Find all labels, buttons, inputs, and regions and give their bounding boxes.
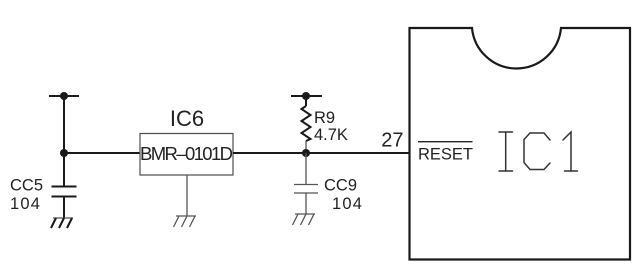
ground (CC5) — [51, 218, 73, 228]
ground (CC9) — [293, 214, 316, 225]
capacitor CC9 — [294, 185, 318, 194]
svg-text:R9: R9 — [314, 109, 335, 127]
svg-text:CC5: CC5 — [10, 177, 43, 195]
svg-text:RESET: RESET — [418, 146, 473, 164]
svg-text:104: 104 — [332, 195, 363, 213]
wire CC9 to ground — [305, 193, 307, 214]
wire R9 junction to CC9 — [305, 153, 307, 185]
svg-text:IC6: IC6 — [170, 106, 204, 131]
wire IC6 to IC1 — [233, 152, 410, 154]
ground (IC6) — [174, 216, 197, 227]
junction dot R9 — [302, 149, 310, 157]
svg-text:27: 27 — [381, 130, 403, 152]
wire left vertical — [63, 96, 65, 187]
svg-text:BMR–0101D: BMR–0101D — [140, 143, 233, 164]
svg-text:4.7K: 4.7K — [314, 126, 348, 144]
wire CC5 to ground — [63, 197, 65, 219]
IC IC6 box — [140, 134, 233, 176]
wire IC6 to ground — [186, 175, 188, 216]
IC IC1 box with notch — [410, 28, 631, 260]
resistor R9 — [302, 96, 311, 141]
label IC1 (stroke CAD font) — [499, 132, 578, 171]
wire junction to IC6 — [64, 152, 140, 154]
svg-text:CC9: CC9 — [324, 177, 357, 195]
junction dot left top — [60, 92, 68, 100]
node VCC stub left — [49, 95, 79, 97]
svg-text:104: 104 — [10, 195, 41, 213]
wire R9 to junction — [305, 141, 307, 153]
junction dot left — [60, 149, 68, 157]
junction dot above R9 — [302, 92, 310, 100]
capacitor CC5 — [52, 187, 77, 197]
node VCC stub above R9 — [291, 95, 322, 97]
pin RESET overline — [418, 141, 473, 143]
